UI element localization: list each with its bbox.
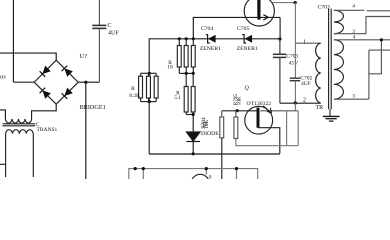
diode D4 bottom-right side of bridge	[62, 88, 73, 99]
wire tap3 bottom	[334, 98, 369, 100]
capacitor C702 4UF	[290, 78, 301, 81]
junction dot node DC+	[84, 81, 87, 84]
svg-text:4: 4	[353, 35, 356, 41]
bridge U? BRIDGE1 diamond	[34, 60, 78, 104]
svg-text:OT130322: OT130322	[247, 101, 272, 107]
wire left vertical input	[12, 0, 14, 82]
ground below TR core	[323, 109, 340, 121]
transformer TR core	[329, 9, 332, 110]
wire bridge bottom to transformer	[32, 104, 57, 119]
svg-text:4UF: 4UF	[301, 81, 311, 87]
wire bottom long black	[149, 153, 280, 155]
svg-text:C703: C703	[318, 5, 330, 11]
wire base rail up to transistor T1	[193, 17, 257, 38]
transformer TRANS1	[0, 119, 35, 177]
wire tap4 top	[334, 9, 390, 12]
bus bottom gray	[129, 169, 258, 179]
svg-text:TRANS1: TRANS1	[37, 127, 58, 133]
diode D DIODE	[186, 132, 200, 155]
wire DC+ vertical down	[85, 82, 87, 179]
zener diode C704 ZENER1	[206, 35, 216, 43]
svg-text:Q: Q	[245, 86, 250, 92]
transistor Q OT130322	[222, 106, 298, 154]
svg-text:2: 2	[303, 98, 306, 104]
transistor T1 (top)	[244, 0, 280, 39]
svg-text:1: 1	[303, 39, 306, 45]
svg-text:8.2K: 8.2K	[129, 93, 140, 99]
wire left vertex feed	[13, 81, 34, 83]
resistor R704 10K	[220, 111, 224, 179]
svg-text:os: os	[0, 74, 6, 81]
svg-text:3: 3	[352, 93, 355, 99]
svg-text:ZENER1: ZENER1	[237, 46, 258, 52]
diode D2 top-right side of bridge	[62, 66, 73, 77]
svg-text:C703: C703	[286, 54, 298, 60]
transformer TR left winding	[316, 43, 321, 103]
wire pin2 gray loop	[287, 103, 299, 146]
wire top-left horizontal to bridge top	[0, 53, 56, 60]
svg-text:U?: U?	[80, 53, 88, 60]
transformer TR right winding bottom	[334, 40, 344, 99]
wire top middle rail	[149, 39, 279, 154]
svg-text:5.1: 5.1	[174, 95, 181, 101]
resistor group R 5.1 (two parallel)	[184, 73, 195, 116]
transformer TR right winding top	[334, 10, 344, 33]
svg-text:18: 18	[167, 65, 173, 71]
wire collector top rail gray	[272, 1, 297, 78]
wire tap1	[295, 42, 320, 44]
wire transformer primary left lead	[0, 110, 5, 119]
capacitor C 4UF top	[92, 0, 106, 82]
junction dot pin2	[294, 101, 297, 104]
svg-text:10K: 10K	[236, 96, 242, 105]
resistor group R 18 (three parallel)	[177, 37, 195, 75]
wire tap3 top with bracket	[334, 17, 390, 34]
diode D3 bottom-left side of bridge	[40, 88, 51, 99]
wire bridge right vertex to cap line	[78, 81, 99, 83]
resistor R705 10K	[234, 111, 298, 146]
svg-text:R: R	[131, 86, 135, 92]
svg-text:DIODE: DIODE	[201, 131, 219, 137]
svg-text:BRIDGE1: BRIDGE1	[80, 104, 106, 111]
wire tap4 bottom	[334, 40, 390, 99]
svg-text:C704: C704	[201, 26, 213, 32]
svg-text:C705: C705	[237, 26, 249, 32]
svg-text:ZENER1: ZENER1	[200, 46, 221, 52]
resistor group R 8.2K (three parallel)	[139, 72, 158, 103]
svg-text:0: 0	[209, 175, 212, 180]
svg-text:45V: 45V	[289, 60, 299, 66]
svg-text:4: 4	[352, 4, 355, 10]
svg-text:4UF: 4UF	[108, 30, 119, 36]
zener diode C705 ZENER1	[242, 35, 252, 43]
wire R5.1 to diode	[192, 115, 194, 133]
junction dot zener rail emitter	[278, 37, 281, 40]
wire pin2 horizontal	[280, 102, 321, 104]
junction dots bus	[134, 167, 137, 170]
svg-text:C: C	[108, 23, 112, 29]
svg-text:TR: TR	[316, 105, 324, 111]
diode D1 top-left side of bridge	[40, 66, 51, 77]
capacitor C703 45V	[273, 39, 286, 103]
svg-text:10K: 10K	[204, 120, 210, 129]
transistor bottom partial circle	[191, 174, 209, 192]
junction dot base R705	[236, 109, 239, 112]
